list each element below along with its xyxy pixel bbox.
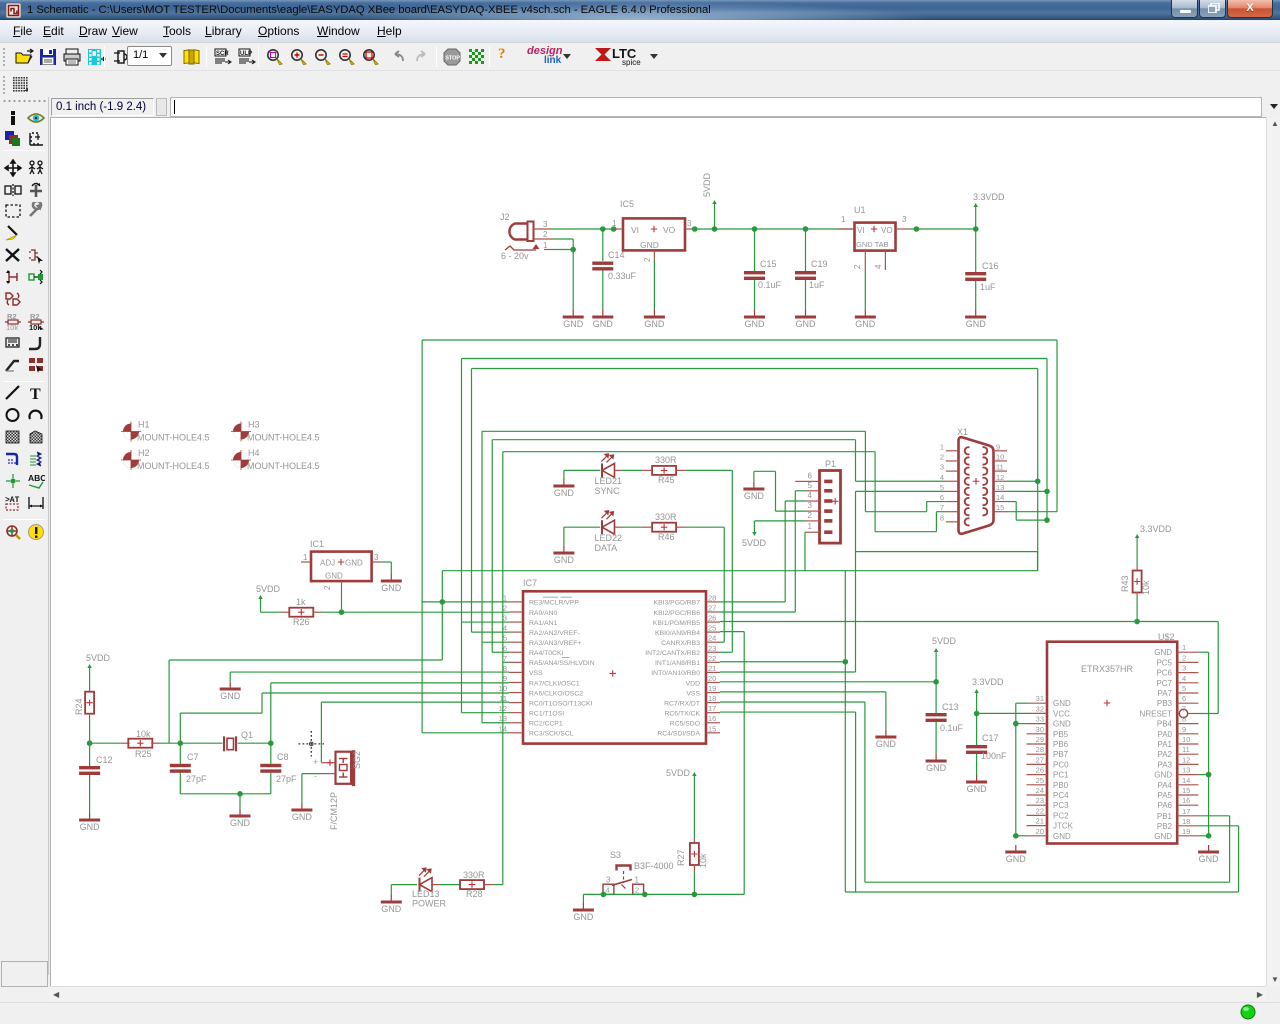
wire IC5 to U1: [695, 228, 855, 230]
wire P1.2 to 5VDD: [754, 520, 805, 522]
pin LED13 anode: [433, 884, 441, 886]
wire IC7.3 row: [462, 621, 510, 623]
wire bus rect B left: [461, 359, 463, 713]
wire bus rect C top: [472, 368, 1038, 370]
svg-text:20: 20: [708, 674, 716, 683]
ground LED21: [553, 479, 574, 498]
svg-text:25: 25: [1036, 776, 1044, 785]
wire SG2 plus vert: [320, 702, 322, 763]
junction X1.13: [1044, 489, 1050, 495]
pin U$2.14: [1157, 776, 1198, 790]
pin U$2.1: [1154, 643, 1198, 657]
svg-text:3: 3: [503, 614, 507, 623]
wire IC7.14 row: [422, 732, 509, 734]
wire R45 to IC7.23: [686, 469, 732, 471]
svg-text:11: 11: [996, 463, 1004, 472]
pin IC7.2: [503, 603, 558, 616]
pin P1.1: [805, 522, 832, 534]
wire to gnd: [239, 794, 241, 809]
svg-text:6: 6: [808, 471, 813, 480]
svg-text:C17: C17: [982, 733, 999, 743]
svg-text:22: 22: [1036, 806, 1044, 815]
pin X1.13: [983, 483, 1008, 495]
supply 5VDD top rail: [714, 203, 716, 229]
junction C7: [178, 740, 184, 746]
svg-text:SYNC: SYNC: [595, 486, 621, 496]
svg-text:GND: GND: [325, 572, 343, 581]
pin P1.6 stub: [795, 480, 805, 482]
wire bus rect C left: [471, 369, 473, 633]
junction R43: [1134, 619, 1140, 625]
svg-text:PA0: PA0: [1157, 730, 1172, 739]
junction 5VDD: [712, 226, 718, 232]
pin U$2.27: [1027, 755, 1070, 769]
svg-text:27: 27: [1036, 755, 1044, 764]
svg-text:GND: GND: [855, 319, 876, 329]
toolbar row 1: [0, 44, 1280, 71]
ground below C16: [965, 310, 986, 329]
module U$2 ETRX357HR: [1047, 632, 1177, 844]
wire bus rect C right: [1037, 369, 1039, 571]
pin X1.2: [940, 452, 970, 464]
ground below C12: [79, 813, 100, 832]
junction IC5 out: [692, 226, 698, 232]
junction X1.14 corner: [1044, 517, 1050, 523]
pin IC7.26: [653, 614, 720, 627]
svg-text:VI: VI: [631, 225, 639, 235]
connector X1 DB15: [957, 427, 994, 534]
junction C13: [933, 679, 939, 685]
svg-text:1: 1: [1182, 643, 1186, 652]
svg-text:12: 12: [996, 473, 1004, 482]
pin X1.14: [983, 493, 1008, 505]
wire IC7.11 row: [321, 701, 509, 703]
pin IC7.8: [503, 664, 543, 677]
wire IC7.7 row: [503, 661, 509, 663]
pin X1.1: [940, 442, 970, 454]
pin X1.6: [940, 493, 970, 505]
svg-text:R25: R25: [135, 749, 152, 759]
pin R46.2: [676, 526, 686, 528]
pin U$2.24: [1027, 786, 1070, 800]
wire inner rail y882: [865, 881, 1230, 883]
svg-text:14: 14: [1182, 776, 1190, 785]
svg-text:7: 7: [503, 654, 507, 663]
ground below J2: [563, 310, 584, 329]
svg-text:VO: VO: [881, 226, 893, 235]
svg-text:LED21: LED21: [595, 476, 623, 486]
ground near P1: [743, 482, 764, 501]
header P1: [820, 459, 841, 543]
svg-text:C15: C15: [760, 259, 777, 269]
pin U1.2: [864, 251, 866, 271]
svg-text:2: 2: [808, 511, 813, 520]
wire S3 gnd: [583, 893, 603, 895]
svg-text:PC7: PC7: [1156, 679, 1172, 688]
svg-text:24: 24: [1036, 786, 1044, 795]
svg-text:330R: 330R: [655, 512, 677, 522]
svg-text:27pF: 27pF: [186, 774, 207, 784]
wire C7 down: [179, 743, 181, 764]
supply 3.3VDD at C17: [972, 677, 1004, 693]
overline SS: [562, 657, 570, 659]
svg-text:GND: GND: [292, 812, 313, 822]
wire P1.1 down: [804, 532, 806, 571]
svg-text:RA4/T0CKI: RA4/T0CKI: [529, 650, 563, 657]
svg-text:0.1uF: 0.1uF: [758, 280, 782, 290]
svg-text:19: 19: [708, 684, 716, 693]
wire IC7.8 row: [230, 671, 509, 673]
svg-text:PA3: PA3: [1157, 760, 1172, 769]
svg-text:DATA: DATA: [595, 543, 618, 553]
wire X1 p14 jog: [1016, 519, 1047, 521]
svg-text:16: 16: [1182, 796, 1190, 805]
svg-text:GND: GND: [640, 240, 659, 250]
wire C7 net up: [179, 713, 181, 743]
svg-text:PB2: PB2: [1157, 822, 1173, 831]
pin U$2.20: [1027, 827, 1072, 841]
pin U$2.8: [1157, 715, 1199, 729]
svg-text:GND: GND: [644, 319, 665, 329]
capacitor C8: [260, 752, 297, 784]
pin IC7.1: [503, 593, 579, 606]
svg-text:32: 32: [1036, 704, 1044, 713]
svg-text:1k: 1k: [296, 597, 306, 607]
svg-text:5: 5: [940, 483, 944, 492]
supply 5VDD at C13: [932, 636, 957, 652]
pin IC7.5: [503, 634, 582, 647]
wire J2.1: [553, 249, 573, 251]
svg-text:3: 3: [543, 220, 548, 229]
svg-text:C19: C19: [811, 259, 828, 269]
wire U$2.19: [1198, 835, 1208, 837]
pin IC1.2: [341, 581, 343, 597]
status LED: [1240, 1004, 1256, 1020]
pin U$2.10: [1157, 735, 1198, 749]
svg-text:3: 3: [940, 463, 944, 472]
wire IC7.25 row: [720, 631, 744, 633]
pin IC7.3: [503, 614, 558, 627]
pin IC5.3: [685, 228, 695, 230]
svg-text:MOUNT-HOLE4.5: MOUNT-HOLE4.5: [247, 461, 320, 471]
svg-text:PA2: PA2: [1157, 750, 1172, 759]
wire IC7.12 row: [462, 712, 510, 714]
wire IC7.10 row: [262, 692, 509, 694]
pin J2.3: [534, 228, 553, 230]
pin R24.2: [89, 714, 91, 723]
pin IC7.22: [655, 654, 720, 667]
ground for IC7 VSS: [220, 682, 241, 701]
wire X1.4: [856, 480, 946, 482]
pin R43.1: [1136, 565, 1138, 571]
svg-text:17: 17: [708, 704, 716, 713]
wire 5VDD to R24: [89, 666, 91, 686]
ground below C13: [926, 754, 947, 773]
pin X1.9: [983, 442, 1008, 454]
svg-text:GND: GND: [744, 491, 765, 501]
svg-text:1: 1: [303, 553, 308, 562]
pin IC7.19: [686, 684, 720, 697]
svg-text:2: 2: [643, 257, 652, 262]
junction J2 gnd: [570, 247, 576, 253]
svg-text:GND: GND: [381, 583, 402, 593]
svg-text:100nF: 100nF: [981, 751, 1007, 761]
ground below C15: [744, 310, 765, 329]
wire IC7.18 down: [864, 702, 866, 882]
svg-text:PA5: PA5: [1157, 791, 1172, 800]
svg-text:PC0: PC0: [1053, 760, 1069, 769]
svg-text:20: 20: [1036, 827, 1044, 836]
svg-text:5: 5: [503, 634, 507, 643]
svg-text:6 - 20v: 6 - 20v: [501, 251, 529, 261]
pin U$2.21: [1027, 817, 1074, 831]
svg-text:2: 2: [503, 603, 507, 612]
mount hole H4: [231, 448, 320, 471]
ground LED22: [553, 546, 574, 565]
svg-text:8: 8: [940, 513, 944, 522]
svg-text:PA7: PA7: [1157, 689, 1172, 698]
wire U$2.17: [1198, 815, 1229, 817]
svg-text:RA6/CLKO/OSC2: RA6/CLKO/OSC2: [529, 690, 583, 697]
wire C12 down: [89, 743, 91, 766]
svg-text:SCR: SCR: [216, 51, 229, 57]
svg-text:GND: GND: [563, 319, 584, 329]
svg-text:21: 21: [708, 664, 716, 673]
svg-text:RC4/SDI/SDA: RC4/SDI/SDA: [657, 731, 700, 738]
svg-text:1: 1: [808, 522, 813, 531]
pin IC7.27: [654, 603, 720, 616]
wire gnd to LED13: [390, 885, 392, 895]
svg-text:KBI3/PGD/RB7: KBI3/PGD/RB7: [654, 600, 701, 607]
capacitor C19: [803, 226, 809, 232]
wire IC1.3 to gnd: [381, 561, 391, 563]
svg-text:4: 4: [874, 264, 883, 269]
pin U$2.6: [1157, 694, 1199, 708]
svg-text:12: 12: [1182, 755, 1190, 764]
svg-text:30: 30: [1036, 725, 1044, 734]
wire C8 to rail: [270, 773, 272, 794]
resistor R46: [652, 523, 676, 532]
svg-text:19: 19: [1182, 827, 1190, 836]
wire IC7.26 row: [720, 621, 1218, 623]
wire nreset row: [1198, 713, 1218, 715]
svg-text:4: 4: [1182, 674, 1186, 683]
pin U$2.13: [1154, 766, 1198, 780]
svg-text:ABC: ABC: [28, 473, 45, 483]
capacitor C15: [752, 226, 758, 232]
wire P1.4 to IC7.28: [785, 500, 805, 502]
pin U$2.5: [1157, 684, 1198, 698]
junction R24/R25: [87, 740, 93, 746]
svg-text:3: 3: [606, 876, 611, 885]
svg-text:NRESET: NRESET: [1140, 710, 1173, 719]
svg-text:10: 10: [1182, 735, 1190, 744]
wire R28 to vert: [493, 884, 502, 886]
svg-text:29: 29: [1036, 735, 1044, 744]
svg-text:PB4: PB4: [1157, 720, 1173, 729]
capacitor C7: [170, 752, 207, 784]
svg-text:ADJ: ADJ: [320, 559, 335, 568]
wire bus rect F left long: [502, 452, 504, 885]
pin U$2.29: [1027, 735, 1069, 749]
svg-text:15: 15: [708, 724, 716, 733]
wire gnd stub IC7.8: [229, 672, 231, 682]
wire X1.14: [1007, 501, 1016, 503]
pin X1.7: [940, 503, 970, 515]
svg-text:C8: C8: [277, 752, 289, 762]
wire U$2.13: [1198, 774, 1208, 776]
svg-text:RA1/AN1: RA1/AN1: [529, 620, 558, 627]
svg-text:RA0/AN0: RA0/AN0: [529, 610, 558, 617]
ground below C17: [966, 775, 987, 794]
wire R43 to nreset: [1136, 598, 1138, 622]
status bar: [0, 1002, 1280, 1024]
pin U$2.17: [1157, 807, 1199, 821]
svg-text:PA1: PA1: [1157, 740, 1172, 749]
wire Q1 left: [180, 742, 222, 744]
supply 5VDD at R27: [666, 768, 697, 778]
svg-text:9: 9: [1182, 725, 1186, 734]
pin IC7.15: [657, 724, 720, 737]
svg-text:MOUNT-HOLE4.5: MOUNT-HOLE4.5: [137, 433, 210, 443]
pin R45.1: [642, 469, 652, 471]
pin U$2.9: [1157, 725, 1198, 739]
svg-text:GND: GND: [1053, 720, 1071, 729]
svg-text:R28: R28: [466, 889, 483, 899]
junction IC7.22: [843, 659, 849, 665]
wire 3.3VDD to R43: [1136, 536, 1138, 565]
svg-text:31: 31: [1036, 694, 1044, 703]
svg-text:24: 24: [708, 634, 716, 643]
capacitor C12: [79, 755, 112, 775]
wire nreset right: [1217, 622, 1219, 714]
mount hole H3: [231, 420, 320, 443]
svg-text:R46: R46: [658, 532, 675, 542]
pin U1.4 tab: [884, 251, 886, 270]
svg-text:8: 8: [1182, 715, 1186, 724]
vertical scrollbar: [1266, 117, 1280, 986]
svg-text:3.3VDD: 3.3VDD: [972, 677, 1004, 687]
svg-text:GND: GND: [593, 319, 614, 329]
pin X1.3: [940, 463, 970, 475]
wire IC7.25 to S3: [743, 632, 745, 895]
svg-text:GND: GND: [230, 818, 251, 828]
ground below S3: [573, 903, 594, 922]
svg-text:GND: GND: [554, 488, 575, 498]
wire R25 east: [160, 742, 180, 744]
pin U$2.7: [1140, 705, 1199, 719]
wire U$2.18: [1198, 825, 1238, 827]
svg-text:C7: C7: [187, 752, 199, 762]
svg-text:RA5/AN4/SS/HLVDIN: RA5/AN4/SS/HLVDIN: [529, 660, 595, 667]
switch S3: [603, 850, 674, 895]
pin IC7.16: [670, 714, 720, 727]
svg-text:18: 18: [1182, 817, 1190, 826]
wire 3.3VDD down: [976, 691, 978, 745]
junction S3.4: [601, 892, 607, 898]
svg-text:KBI0/AN9/RB4: KBI0/AN9/RB4: [655, 630, 700, 637]
pin P1.6: [805, 471, 832, 483]
pin IC7.13: [499, 714, 563, 727]
microcontroller IC7: [523, 578, 706, 744]
pin R24.1: [89, 686, 91, 692]
svg-text:PA4: PA4: [1157, 781, 1172, 790]
svg-text:KBI2/PGC/RB6: KBI2/PGC/RB6: [654, 610, 701, 617]
junction crystal gnd: [237, 791, 243, 797]
wire bus rect F right: [874, 452, 876, 532]
svg-text:1: 1: [543, 241, 548, 250]
svg-text:9: 9: [503, 674, 507, 683]
wire U1 to 3.3VDD node: [909, 228, 976, 230]
wire P1.3 to gnd: [776, 510, 806, 512]
svg-text:RC0/T1OSO/T13CKI: RC0/T1OSO/T13CKI: [529, 700, 593, 707]
pin IC7.23: [645, 644, 720, 657]
toolbar row 2 grid button: [0, 72, 1280, 98]
svg-text:23: 23: [708, 644, 716, 653]
svg-text:RC2/CCP1: RC2/CCP1: [529, 721, 563, 728]
pin U1.1: [837, 228, 855, 230]
wire U$2.17 up: [1229, 816, 1231, 882]
svg-text:4: 4: [606, 886, 610, 895]
resistor R25: [128, 739, 152, 748]
svg-text:X1: X1: [957, 427, 968, 437]
svg-text:GND: GND: [876, 739, 897, 749]
pin X1.11: [983, 463, 1008, 475]
pin U$2.28: [1027, 745, 1069, 759]
pin R25.2: [151, 742, 160, 744]
svg-text:5VDD: 5VDD: [86, 653, 111, 663]
svg-text:2: 2: [635, 886, 639, 895]
ground below C19: [795, 310, 816, 329]
pin R25.1: [122, 742, 130, 744]
svg-text:7: 7: [1182, 705, 1186, 714]
resistor R43: [1133, 571, 1142, 593]
svg-text:R26: R26: [293, 617, 310, 627]
svg-text:25: 25: [708, 624, 716, 633]
pin IC7.7: [503, 654, 595, 667]
ground right of U$2: [1198, 845, 1219, 864]
wire bus rect E top: [492, 439, 855, 441]
LED LED21: [595, 454, 623, 496]
regulator IC1: [303, 539, 379, 590]
svg-text:5: 5: [1182, 684, 1186, 693]
pin R46.1: [642, 526, 652, 528]
svg-text:0.33uF: 0.33uF: [608, 271, 637, 281]
junction IC5 input: [611, 226, 617, 232]
svg-text:4: 4: [940, 473, 944, 482]
menu bar: [0, 20, 1280, 43]
svg-text:B3F-4000: B3F-4000: [634, 861, 674, 871]
svg-text:RA3/AN3/VREF+: RA3/AN3/VREF+: [529, 640, 581, 647]
svg-text:5VDD: 5VDD: [256, 584, 281, 594]
svg-text:VSS: VSS: [529, 670, 543, 677]
pin U1.3: [896, 228, 910, 230]
junction U$2.20: [1013, 833, 1019, 839]
wire X1.6: [927, 501, 946, 503]
wire U$2.20: [1016, 835, 1027, 837]
capacitor C13: [926, 702, 964, 733]
wire J2 to gnd: [572, 250, 574, 311]
svg-text:3.3VDD: 3.3VDD: [1140, 524, 1172, 534]
svg-text:H2: H2: [138, 448, 150, 458]
pin U$2.16: [1157, 796, 1198, 810]
palette bottom corner box: [1, 961, 48, 987]
junction U1 out: [914, 226, 920, 232]
svg-text:26: 26: [1036, 766, 1044, 775]
svg-text:GND: GND: [1154, 771, 1172, 780]
pin IC7.17: [664, 704, 720, 717]
pin IC7.20: [686, 674, 720, 687]
